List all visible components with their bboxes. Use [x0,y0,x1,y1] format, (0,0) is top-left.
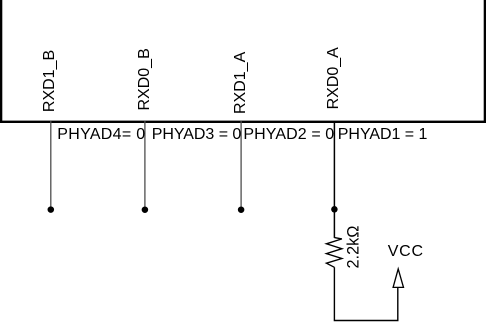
svg-text:RXD1_B: RXD1_B [41,50,58,112]
svg-text:RXD1_A: RXD1_A [232,51,249,114]
svg-text:2.2kΩ: 2.2kΩ [345,226,363,269]
svg-text:RXD0_A: RXD0_A [325,47,342,110]
svg-text:PHYAD4= 0: PHYAD4= 0 [57,126,145,143]
svg-text:VCC: VCC [388,243,423,260]
svg-text:PHYAD3 = 0: PHYAD3 = 0 [152,126,242,143]
svg-text:PHYAD1 = 1: PHYAD1 = 1 [338,126,428,143]
svg-text:PHYAD2 = 0: PHYAD2 = 0 [243,126,334,143]
svg-text:RXD0_B: RXD0_B [136,48,153,110]
